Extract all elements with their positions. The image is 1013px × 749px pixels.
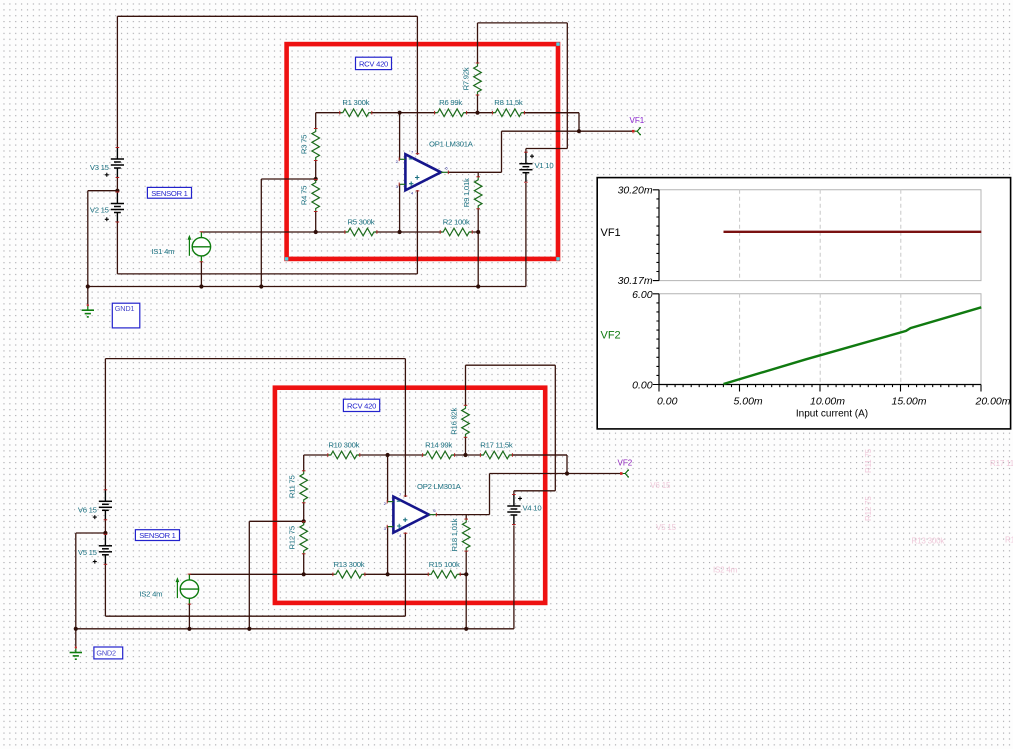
svg-text:R11 75: R11 75 [864,448,873,473]
svg-text:6.00: 6.00 [632,289,653,301]
svg-text:R13 300k: R13 300k [912,537,946,546]
svg-text:VF2: VF2 [618,458,633,467]
resistor R13 [333,560,365,578]
svg-text:R12 75: R12 75 [288,526,297,549]
box GND2 [94,647,123,659]
resistor R11 [288,471,308,503]
svg-text:VF1: VF1 [601,227,621,239]
wire right drop [566,23,568,149]
svg-text:IS1 4m: IS1 4m [151,247,174,256]
resistor R9 [462,177,482,209]
node R18 ground [464,627,468,631]
svg-text:R2 100k: R2 100k [443,218,470,227]
wire OP2 pin4 drop [404,532,406,616]
wire OP1 output [448,171,501,173]
axes [659,190,981,385]
wire R12 bottom [303,554,305,575]
wire IS1 to ground bus [200,262,202,287]
wire node to left column [76,532,106,534]
waveform viewer panel [597,178,1011,429]
node R9 ground [476,284,480,288]
wire R11 top [303,455,305,471]
wire V3 minus to node [116,176,118,191]
node R11/R12 [302,519,306,523]
svg-text:IS2 4m: IS2 4m [713,566,738,575]
wire V4 top stub [513,491,515,496]
ghost artifact labels (faded) [650,448,1013,574]
svg-text:VF1: VF1 [630,116,645,125]
wire ground stem [87,287,89,306]
svg-text:R16 92k: R16 92k [450,407,459,434]
svg-text:V6 15: V6 15 [650,481,671,490]
resistor R15 [428,560,460,578]
dashed gridlines [740,190,901,385]
wire mid tap [249,520,303,522]
svg-text:5.00m: 5.00m [734,395,763,407]
battery V6 [78,490,112,520]
op-amp OP1 [396,140,474,196]
node IS2 ground [187,627,191,631]
resistor R17 [480,441,513,459]
wire to non-inverting input [399,184,401,232]
resistor R16 [450,405,470,437]
output net flag VF1 [632,127,641,135]
wire input row [304,454,567,456]
wire R18 bottom drop [465,551,467,629]
battery V1 [519,152,553,182]
svg-text:30.17m: 30.17m [618,275,653,287]
svg-text:R14 99k: R14 99k [425,441,452,450]
ground GND1 [82,304,94,317]
node R7 input row [475,111,479,115]
node R9/feedback row [476,230,480,234]
wire R8 to output node [524,112,579,114]
svg-text:GND2: GND2 [96,649,116,658]
wire to inverting input [399,113,401,160]
wire to V4 plus [514,490,555,492]
node V3-V2 junction [115,189,119,193]
node R12/feedback row [302,572,306,576]
wire R16 top riser [465,365,467,405]
resistor R14 [423,441,455,459]
wire left column down [87,191,89,287]
svg-text:10.00m: 10.00m [810,395,845,407]
wire left drop to V6 [104,359,106,490]
wire R4 bottom [315,212,317,233]
wire feedback row [201,231,478,233]
wire top bus [117,15,417,17]
wire V6 minus to node [104,518,106,533]
label RCV 420 (2) [343,399,379,411]
node non-inverting input [398,230,402,234]
output net flag VF2 [620,469,629,477]
wire to non-inverting input [387,527,389,575]
svg-text:IS2 4m: IS2 4m [139,589,162,598]
wire top right link [466,364,556,366]
svg-text:Input current (A): Input current (A) [796,409,868,420]
label SENSOR 1 (2) [135,530,179,541]
wire R3-R4 mid [315,161,317,180]
node R3/R4 [314,177,318,181]
box GND1 [112,303,140,328]
svg-text:15.00m: 15.00m [892,395,927,407]
svg-text:RCV 420: RCV 420 [359,59,388,68]
svg-text:R12 75: R12 75 [864,496,873,521]
svg-text:V5 15: V5 15 [78,548,97,557]
wire output to VF2 flag [490,473,622,475]
wire R9 top stub [477,172,479,177]
wire mid tap drop [260,179,262,287]
plot frames [659,190,981,385]
svg-text:RCV 420: RCV 420 [347,401,376,410]
svg-text:VF2: VF2 [601,330,621,342]
node output/R17 [565,471,569,475]
wire IS2 to ground bus [188,604,190,629]
node non-inverting input [386,572,390,576]
svg-text:R18 1,01k: R18 1,01k [450,518,459,551]
wire R9 bottom drop [477,209,479,287]
battery V3 [90,148,124,178]
wire R16 bottom [465,437,467,455]
node V6-V5 junction [103,531,107,535]
svg-text:GND1: GND1 [115,304,135,313]
resistor R7 [462,63,482,95]
svg-text:V5 15: V5 15 [656,523,677,532]
resistor R3 [300,129,320,161]
wire mid tap drop [248,521,250,629]
svg-text:R13 300k: R13 300k [333,560,364,569]
svg-text:20.00m: 20.00m [975,395,1011,407]
wire right drop [554,365,556,491]
wire V1 minus drop [525,183,527,287]
wire R17 to output node [512,454,567,456]
svg-text:R8 11,5k: R8 11,5k [494,98,523,107]
resistor R2 [440,218,472,236]
svg-text:R15 100k: R15 100k [429,560,460,569]
wire node to left column [88,190,118,192]
wire output to VF1 flag [502,130,634,132]
wire negative supply bus [105,615,405,617]
wire output riser [501,131,503,172]
wire feedback row [189,573,466,575]
wire ground bus [88,286,526,288]
node mid-tap ground [259,284,263,288]
ground GND2 [70,646,82,659]
wire left drop to V3 [116,16,118,147]
svg-text:R3 75: R3 75 [300,135,309,154]
wire output riser [489,474,491,515]
wire V2 to bottom bus [116,221,118,274]
svg-text:R4 75: R4 75 [300,186,309,205]
resistor R18 [450,518,470,551]
wire R18 top stub [465,515,467,520]
wire V4 minus drop [513,525,515,629]
node ground bus left [74,627,78,631]
wire R7 bottom [477,95,479,113]
battery V2 [90,192,124,222]
wire mid tap [261,178,315,180]
RCV420 selection rectangle 1 [285,42,560,260]
svg-text:R5 300k: R5 300k [347,218,374,227]
svg-text:R7 92k: R7 92k [462,67,471,90]
wire V1 top stub [525,149,527,154]
wire left column down [75,533,77,629]
wire to inverting input [387,455,389,502]
wire top bus [105,358,405,360]
svg-text:0.00: 0.00 [632,379,653,391]
resistor R8 [492,98,524,116]
svg-text:R11 75: R11 75 [288,475,297,498]
svg-text:R17 11,5k: R17 11,5k [990,459,1013,468]
svg-text:R9 1,01k: R9 1,01k [462,178,471,207]
resistor R5 [345,218,377,236]
wire V+ to OP2 pin7 [404,359,406,497]
svg-text:SENSOR 1: SENSOR 1 [151,189,187,198]
label SENSOR 1 [147,187,191,198]
resistor R1 [340,98,372,116]
resistor R12 [288,522,308,554]
wire R11-R12 mid [303,503,305,522]
wire ground stem [75,629,77,648]
node R4/feedback row [314,230,318,234]
wire OP2 output [436,514,489,516]
resistor R4 [300,180,320,212]
svg-text:V1 10: V1 10 [535,161,554,170]
svg-text:V2 15: V2 15 [90,206,109,215]
wire ground bus [76,628,514,630]
svg-text:R15 1: R15 1 [1005,536,1013,545]
svg-text:OP2 LM301A: OP2 LM301A [417,482,462,491]
node R18/feedback row [464,572,468,576]
wire to V1 plus [526,148,567,150]
node IS1 ground [199,284,203,288]
battery V4 [507,495,541,525]
svg-text:R1 300k: R1 300k [342,98,369,107]
wire OP1 pin4 drop [416,190,418,274]
node inverting input [386,453,390,457]
wire output node drop [566,455,568,474]
node ground bus left [86,284,90,288]
svg-text:V6 15: V6 15 [78,505,97,514]
svg-text:R10 300k: R10 300k [328,441,359,450]
current source IS1 [151,232,210,262]
svg-text:SENSOR 1: SENSOR 1 [139,531,175,540]
wire R3 top [315,113,317,129]
resistor R6 [435,98,467,116]
wire output node drop [578,113,580,132]
node output/R8 [577,129,581,133]
curve VF2 [724,307,982,384]
svg-text:R6 99k: R6 99k [439,98,462,107]
RCV420 selection rectangle 2 [275,388,545,603]
svg-text:30.20m: 30.20m [618,185,653,197]
svg-text:0.00: 0.00 [657,395,678,407]
svg-text:R17 11,5k: R17 11,5k [480,441,513,450]
svg-text:V4 10: V4 10 [523,503,542,512]
wire top right link [478,22,568,24]
wire R7 top riser [477,23,479,63]
wire V+ to OP1 pin7 [416,16,418,154]
wire V5 to bottom bus [104,563,106,616]
battery V5 [78,534,112,564]
axis ticks [653,190,981,392]
node inverting input [398,111,402,115]
resistor R10 [328,441,360,459]
node R16 input row [463,453,467,457]
wire input row [316,112,579,114]
svg-text:V3 15: V3 15 [90,163,109,172]
wire negative supply bus [117,273,417,275]
curve VF1 [724,231,982,233]
op-amp OP2 [384,482,462,538]
current source IS2 [139,574,198,604]
label RCV 420 [356,57,392,69]
svg-text:OP1 LM301A: OP1 LM301A [429,140,474,149]
node mid-tap ground [247,627,251,631]
